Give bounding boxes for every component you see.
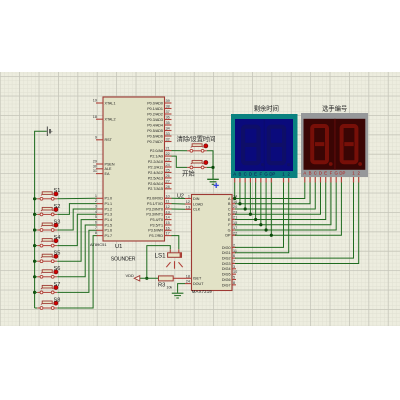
- svg-text:P2.2/A10: P2.2/A10: [148, 160, 163, 164]
- svg-text:VDD: VDD: [126, 273, 135, 278]
- svg-text:DP: DP: [269, 172, 275, 177]
- svg-text:P2.7/A15: P2.7/A15: [148, 187, 163, 191]
- svg-text:1: 1: [188, 195, 190, 199]
- svg-text:P0.2/AD2: P0.2/AD2: [147, 112, 163, 116]
- svg-text:1: 1: [95, 194, 97, 198]
- svg-text:25: 25: [166, 168, 170, 172]
- svg-text:P1.6: P1.6: [105, 229, 113, 233]
- svg-text:34: 34: [166, 127, 170, 131]
- svg-text:PSEN: PSEN: [105, 162, 115, 166]
- svg-text:39: 39: [166, 99, 170, 103]
- svg-text:S1: S1: [54, 188, 61, 194]
- svg-text:XTAL2: XTAL2: [105, 118, 116, 122]
- svg-text:36: 36: [166, 116, 170, 120]
- svg-text:C: C: [244, 172, 247, 177]
- svg-text:18: 18: [93, 115, 97, 119]
- svg-text:U1: U1: [115, 244, 122, 250]
- svg-text:12: 12: [186, 200, 190, 204]
- svg-text:11: 11: [166, 200, 170, 204]
- svg-text:P0.6/AD6: P0.6/AD6: [147, 134, 163, 138]
- svg-text:P0.0/AD0: P0.0/AD0: [147, 101, 163, 105]
- svg-text:38: 38: [166, 105, 170, 109]
- svg-text:12: 12: [166, 205, 170, 209]
- svg-text:DIG6: DIG6: [222, 278, 231, 282]
- svg-text:ALE: ALE: [105, 167, 113, 171]
- svg-text:P3.2/INT0: P3.2/INT0: [146, 207, 163, 211]
- svg-text:24: 24: [186, 280, 190, 284]
- svg-text:P1.4: P1.4: [105, 218, 113, 222]
- svg-text:S4: S4: [54, 235, 61, 241]
- svg-text:E: E: [324, 171, 327, 176]
- svg-text:15: 15: [166, 221, 170, 225]
- svg-text:30: 30: [93, 164, 97, 168]
- svg-text:S5: S5: [54, 251, 61, 257]
- svg-text:20: 20: [233, 205, 237, 209]
- svg-text:P3.5/T1: P3.5/T1: [150, 223, 163, 227]
- svg-text:DIG4: DIG4: [222, 267, 231, 271]
- svg-text:6: 6: [95, 221, 97, 225]
- svg-text:27: 27: [166, 179, 170, 183]
- svg-text:5: 5: [233, 276, 235, 280]
- svg-text:DIG5: DIG5: [222, 273, 231, 277]
- svg-text:10: 10: [166, 194, 170, 198]
- svg-text:C: C: [314, 171, 317, 176]
- svg-text:B: B: [309, 171, 312, 176]
- svg-text:P3.0/RXD: P3.0/RXD: [147, 197, 164, 201]
- svg-text:XTAL1: XTAL1: [105, 101, 116, 105]
- svg-text:P1.5: P1.5: [105, 223, 113, 227]
- svg-text:P0.4/AD4: P0.4/AD4: [147, 123, 163, 127]
- svg-text:P3.3/INT1: P3.3/INT1: [146, 213, 163, 217]
- svg-text:7: 7: [233, 259, 235, 263]
- svg-text:21: 21: [233, 216, 237, 220]
- svg-text:P0.3/AD3: P0.3/AD3: [147, 118, 163, 122]
- svg-text:26: 26: [166, 174, 170, 178]
- svg-text:4: 4: [95, 210, 97, 214]
- svg-text:P3.1/TXD: P3.1/TXD: [147, 202, 163, 206]
- svg-text:DP: DP: [339, 171, 345, 176]
- svg-text:P3.7/RD: P3.7/RD: [149, 234, 163, 238]
- svg-text:P2.1/A9: P2.1/A9: [150, 154, 163, 158]
- svg-text:9: 9: [95, 135, 97, 139]
- svg-text:S7: S7: [54, 282, 61, 288]
- svg-text:S3: S3: [54, 219, 61, 225]
- svg-text:32: 32: [166, 138, 170, 142]
- svg-text:29: 29: [93, 160, 97, 164]
- svg-text:10k: 10k: [167, 285, 173, 289]
- svg-text:33: 33: [166, 132, 170, 136]
- svg-text:LOAD: LOAD: [193, 202, 203, 206]
- svg-text:P3.6/WR: P3.6/WR: [148, 229, 163, 233]
- svg-text:B: B: [238, 172, 241, 177]
- svg-text:F: F: [330, 171, 333, 176]
- svg-text:P1.3: P1.3: [105, 213, 113, 217]
- svg-text:16: 16: [233, 200, 237, 204]
- svg-text:5: 5: [95, 215, 97, 219]
- svg-text:S2: S2: [54, 204, 61, 210]
- svg-text:DIG7: DIG7: [222, 283, 231, 287]
- svg-text:S8: S8: [54, 297, 61, 303]
- svg-text:P0.7/AD7: P0.7/AD7: [147, 140, 163, 144]
- svg-text:23: 23: [233, 210, 237, 214]
- svg-text:15: 15: [233, 221, 237, 225]
- svg-text:P0.5/AD5: P0.5/AD5: [147, 129, 163, 133]
- svg-text:P2.5/A13: P2.5/A13: [148, 176, 163, 180]
- svg-text:剩余时间: 剩余时间: [254, 103, 279, 112]
- svg-text:22: 22: [166, 152, 170, 156]
- svg-text:选手编号: 选手编号: [322, 103, 347, 112]
- svg-text:P1.1: P1.1: [105, 202, 113, 206]
- svg-text:DIG0: DIG0: [222, 246, 231, 250]
- svg-text:2: 2: [233, 243, 235, 247]
- svg-text:F: F: [260, 172, 263, 177]
- svg-text:A: A: [233, 172, 236, 177]
- svg-text:13: 13: [186, 205, 190, 209]
- svg-text:P1.2: P1.2: [105, 207, 113, 211]
- svg-text:D: D: [319, 171, 322, 176]
- svg-text:MAX7219: MAX7219: [192, 289, 212, 294]
- svg-text:D: D: [228, 213, 231, 217]
- svg-text:8: 8: [95, 231, 97, 235]
- svg-text:3: 3: [95, 205, 97, 209]
- svg-text:开始: 开始: [182, 168, 195, 177]
- svg-text:R3: R3: [158, 283, 165, 289]
- svg-text:23: 23: [166, 158, 170, 162]
- svg-text:P2.0/A8: P2.0/A8: [150, 149, 163, 153]
- svg-text:LS1: LS1: [155, 252, 167, 259]
- svg-text:14: 14: [166, 216, 170, 220]
- svg-text:18: 18: [186, 274, 190, 278]
- svg-text:P1.7: P1.7: [105, 234, 113, 238]
- svg-text:21: 21: [166, 147, 170, 151]
- svg-text:P0.1/AD1: P0.1/AD1: [147, 107, 163, 111]
- svg-text:DIG3: DIG3: [222, 262, 231, 266]
- svg-text:P1.0: P1.0: [105, 197, 113, 201]
- svg-text:DP: DP: [225, 234, 231, 238]
- svg-text:11: 11: [233, 249, 237, 253]
- svg-text:P2.4/A12: P2.4/A12: [148, 171, 163, 175]
- svg-text:DIN: DIN: [193, 197, 200, 201]
- svg-text:28: 28: [166, 185, 170, 189]
- svg-text:E: E: [254, 172, 257, 177]
- svg-text:17: 17: [233, 226, 237, 230]
- svg-text:EA: EA: [105, 172, 110, 176]
- svg-text:DOUT: DOUT: [193, 282, 204, 286]
- svg-text:A: A: [303, 171, 306, 176]
- svg-text:10: 10: [233, 270, 237, 274]
- svg-text:D: D: [249, 172, 252, 177]
- svg-text:13: 13: [166, 210, 170, 214]
- svg-text:8: 8: [233, 281, 235, 285]
- svg-text:DIG2: DIG2: [222, 257, 231, 261]
- svg-text:6: 6: [233, 254, 235, 258]
- svg-text:2: 2: [95, 199, 97, 203]
- svg-text:C: C: [228, 207, 231, 211]
- svg-text:35: 35: [166, 121, 170, 125]
- svg-text:3: 3: [233, 265, 235, 269]
- svg-text:P2.3/A11: P2.3/A11: [148, 165, 163, 169]
- svg-text:RST: RST: [105, 138, 113, 142]
- svg-text:S6: S6: [54, 266, 61, 272]
- svg-text:16: 16: [166, 226, 170, 230]
- svg-text:31: 31: [93, 169, 97, 173]
- svg-text:19: 19: [93, 99, 97, 103]
- svg-text:G: G: [228, 228, 231, 232]
- svg-text:17: 17: [166, 232, 170, 236]
- svg-text:ISET: ISET: [193, 277, 202, 281]
- svg-text:清除/设置时间: 清除/设置时间: [177, 134, 216, 143]
- svg-text:22: 22: [233, 231, 237, 235]
- svg-text:7: 7: [95, 226, 97, 230]
- svg-text:24: 24: [166, 163, 170, 167]
- svg-text:CLK: CLK: [193, 208, 201, 212]
- svg-text:P2.6/A14: P2.6/A14: [148, 182, 163, 186]
- svg-text:37: 37: [166, 110, 170, 114]
- svg-text:SOUNDER: SOUNDER: [111, 257, 136, 263]
- svg-text:DIG1: DIG1: [222, 251, 231, 255]
- svg-text:P3.4/T0: P3.4/T0: [150, 218, 163, 222]
